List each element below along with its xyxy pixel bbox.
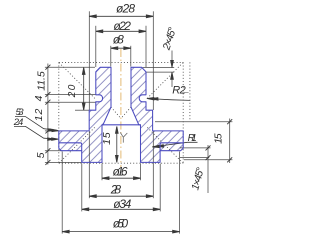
svg-text:ø8: ø8 (113, 32, 124, 46)
svg-text:2.4: 2.4 (13, 117, 23, 128)
svg-text:15: 15 (101, 132, 113, 145)
svg-text:20: 20 (67, 84, 78, 98)
svg-text:ø16: ø16 (113, 165, 128, 179)
svg-text:15: 15 (213, 133, 225, 144)
svg-text:4: 4 (33, 95, 45, 101)
svg-text:1×45°: 1×45° (189, 166, 207, 191)
svg-text:ø28: ø28 (116, 2, 135, 16)
svg-text:ø34: ø34 (113, 197, 131, 211)
svg-text:5: 5 (35, 152, 47, 158)
svg-text:12: 12 (33, 109, 45, 122)
svg-text:28: 28 (110, 182, 122, 196)
svg-text:R2: R2 (172, 85, 186, 97)
svg-text:11.5: 11.5 (35, 71, 47, 91)
svg-text:R1: R1 (188, 133, 197, 144)
svg-text:ø50: ø50 (113, 216, 129, 230)
svg-text:ø22: ø22 (113, 19, 131, 33)
svg-text:2×45°: 2×45° (160, 26, 178, 52)
